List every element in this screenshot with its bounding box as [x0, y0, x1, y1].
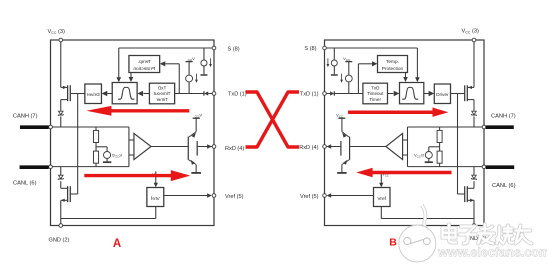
- resistor RH: [95, 127, 97, 130]
- pin node: Vref: [323, 194, 327, 198]
- red crossover wire RxD-A to TxD-B: [246, 92, 300, 147]
- transistor: high-side CANH driver: [69, 85, 71, 101]
- zener diode to CANH: [472, 111, 476, 115]
- svg-text:TxD (1): TxD (1): [300, 92, 319, 98]
- watermark logo nodes: [404, 237, 411, 244]
- svg-text:Vref (5): Vref (5): [225, 194, 244, 200]
- resistor RL: [439, 143, 441, 152]
- box: Temp. Protection U-TP: [129, 56, 160, 73]
- receiver input network box edge: [407, 127, 409, 167]
- wire: S pin to slope-control enable: [325, 47, 418, 49]
- pin node: S: [323, 46, 327, 50]
- wire: TxD to timeout timer: [175, 93, 204, 95]
- svg-text:TxD (1): TxD (1): [228, 92, 247, 98]
- box: Vref bandgap: [374, 188, 391, 207]
- svg-text:S (8): S (8): [228, 47, 240, 53]
- svg-text:CANH (7): CANH (7): [13, 114, 38, 120]
- wire: CANH internal rail: [51, 126, 129, 128]
- wire: driver output to output transistor gates: [71, 93, 85, 95]
- wire: CANL internal rail: [51, 166, 129, 168]
- box: Driver: [434, 84, 450, 104]
- CANH bus stub: [486, 125, 514, 129]
- current source I1 on S line: [333, 48, 335, 60]
- arrowhead into RxD pin: [327, 144, 332, 148]
- wire: comparator output to RxD stage: [151, 146, 188, 148]
- receiver input network box edge: [128, 127, 130, 167]
- pin node: TxD: [212, 92, 216, 96]
- box: slope control with waveform glyph: [112, 83, 137, 104]
- red flow arrow B transmit (right): [348, 110, 434, 114]
- wire: driver output to output transistor gates: [451, 93, 465, 95]
- svg-text:Vref: Vref: [377, 196, 386, 202]
- svg-text:Vref: Vref: [150, 196, 159, 202]
- svg-text:Protection: Protection: [133, 66, 155, 72]
- transistor: low-side CANL driver: [458, 193, 465, 195]
- svg-text:Temp.: Temp.: [386, 59, 399, 65]
- svg-text:www.elecfans.com: www.elecfans.com: [437, 246, 547, 260]
- svg-text:TxD: TxD: [371, 86, 380, 91]
- resistor RL: [95, 143, 97, 152]
- red flow arrow A transmit (left): [111, 109, 190, 112]
- wire: Vref ground return: [155, 207, 157, 219]
- svg-text:VCC/2: VCC/2: [414, 153, 425, 159]
- zener diode to CANL: [472, 175, 476, 179]
- pin node: CANL: [482, 165, 486, 169]
- svg-text:Timeout: Timeout: [367, 91, 384, 96]
- red crossover wire TxD-A to RxD-B: [246, 92, 300, 147]
- box: TxD Timeout Timer: [363, 83, 388, 104]
- arrow: timeout timer to slope control: [143, 93, 149, 95]
- current source I1 on S line: [203, 48, 205, 60]
- CANL bus stub: [20, 165, 49, 169]
- zener diode to CANH: [59, 111, 64, 115]
- pin node: CANL: [49, 165, 53, 169]
- IC block outline: [51, 40, 214, 226]
- comparator: receiver: [134, 133, 151, 159]
- box: Vref bandgap: [147, 188, 164, 207]
- pin node: CANH: [482, 125, 486, 129]
- pin node: S: [212, 46, 216, 50]
- svg-text:Protection: Protection: [382, 66, 404, 72]
- pin node: Vcc: [472, 38, 476, 42]
- TxD input diode symbol: [208, 93, 212, 95]
- IC block outline: [325, 40, 485, 226]
- pin node: RxD: [323, 145, 327, 149]
- svg-text:GND (2): GND (2): [49, 238, 70, 244]
- wire: temp protection to slope control: [130, 73, 132, 78]
- svg-text:TxD: TxD: [157, 86, 166, 91]
- pin node: TxD: [323, 92, 327, 96]
- arrow: timeout timer to slope control: [388, 93, 394, 95]
- wire: Vref to pin: [331, 195, 374, 197]
- reference source Vcc/2: [96, 146, 107, 148]
- wire: Vref to pin: [164, 195, 208, 197]
- wire: Vref ground return: [380, 207, 382, 219]
- transistor: high-side CANH driver: [464, 85, 466, 101]
- resistor RH: [439, 127, 441, 130]
- svg-text:Driver: Driver: [86, 92, 99, 98]
- svg-text:RxD (4): RxD (4): [299, 145, 318, 151]
- svg-text:A: A: [113, 238, 121, 250]
- CANL bus stub: [486, 165, 514, 169]
- wire: TxD branch to temperature protection: [178, 64, 180, 94]
- wire: TxD to timeout timer: [334, 93, 363, 95]
- pin node: RxD: [212, 145, 216, 149]
- pin node: Vcc: [59, 38, 63, 42]
- comparator: receiver: [386, 133, 403, 159]
- svg-text:VCC/2: VCC/2: [111, 153, 122, 159]
- pin node: CANH: [49, 125, 53, 129]
- wire: TxD branch to temperature protection: [357, 64, 359, 94]
- svg-text:Timeout: Timeout: [153, 91, 171, 96]
- svg-text:S (8): S (8): [304, 46, 316, 52]
- CANH bus stub: [20, 125, 49, 129]
- pin node: Vref: [212, 194, 216, 198]
- watermark brand glyphs (hand drawn): [449, 225, 456, 243]
- wire: temp protection to slope control: [405, 73, 407, 78]
- ground: RxD stage: [191, 172, 201, 174]
- svg-text:Temp.: Temp.: [138, 59, 151, 65]
- svg-text:Driver: Driver: [436, 92, 449, 97]
- watermark logo disc: [422, 205, 428, 231]
- svg-text:VCC (3): VCC (3): [48, 29, 66, 35]
- svg-text:RxD (4): RxD (4): [225, 146, 244, 152]
- ground: RxD stage: [337, 172, 346, 174]
- svg-text:Timer: Timer: [369, 97, 381, 102]
- box: slope control with waveform glyph: [400, 83, 424, 104]
- svg-text:VCC (3): VCC (3): [462, 29, 480, 35]
- svg-text:B: B: [389, 237, 397, 249]
- red flow arrow A receive (right): [84, 174, 172, 177]
- wire: CANH internal rail: [408, 126, 485, 128]
- red flow arrow B receive (left): [371, 171, 452, 175]
- wire: comparator output to RxD stage: [350, 146, 386, 148]
- transistor: low-side CANL driver: [71, 193, 78, 195]
- svg-text:Vref (5): Vref (5): [300, 194, 319, 200]
- pin node: GND: [59, 224, 63, 228]
- zener diode to CANL: [59, 175, 64, 179]
- arrow: slope control to driver: [424, 93, 429, 95]
- box: TxD Timeout Timer: [149, 83, 174, 104]
- transceiver block A internals (mirrored copy): [20, 38, 216, 227]
- transceiver block B internals: [323, 38, 515, 227]
- wire: CANL internal rail: [408, 166, 485, 168]
- wire: S pin to slope-control enable: [119, 47, 214, 49]
- TxD input diode symbol: [326, 93, 330, 95]
- svg-text:CANH (7): CANH (7): [491, 114, 516, 120]
- pin node: GND: [472, 224, 476, 228]
- svg-text:CANL (6): CANL (6): [13, 181, 37, 187]
- reference source Vcc/2: [429, 146, 440, 148]
- box: Driver: [85, 84, 102, 104]
- box: Temp. Protection U-TP: [378, 56, 408, 73]
- svg-text:CANL (6): CANL (6): [492, 183, 516, 189]
- arrowhead into RxD pin: [207, 144, 212, 148]
- svg-text:Timer: Timer: [156, 97, 168, 102]
- arrow: slope control to driver: [107, 93, 112, 95]
